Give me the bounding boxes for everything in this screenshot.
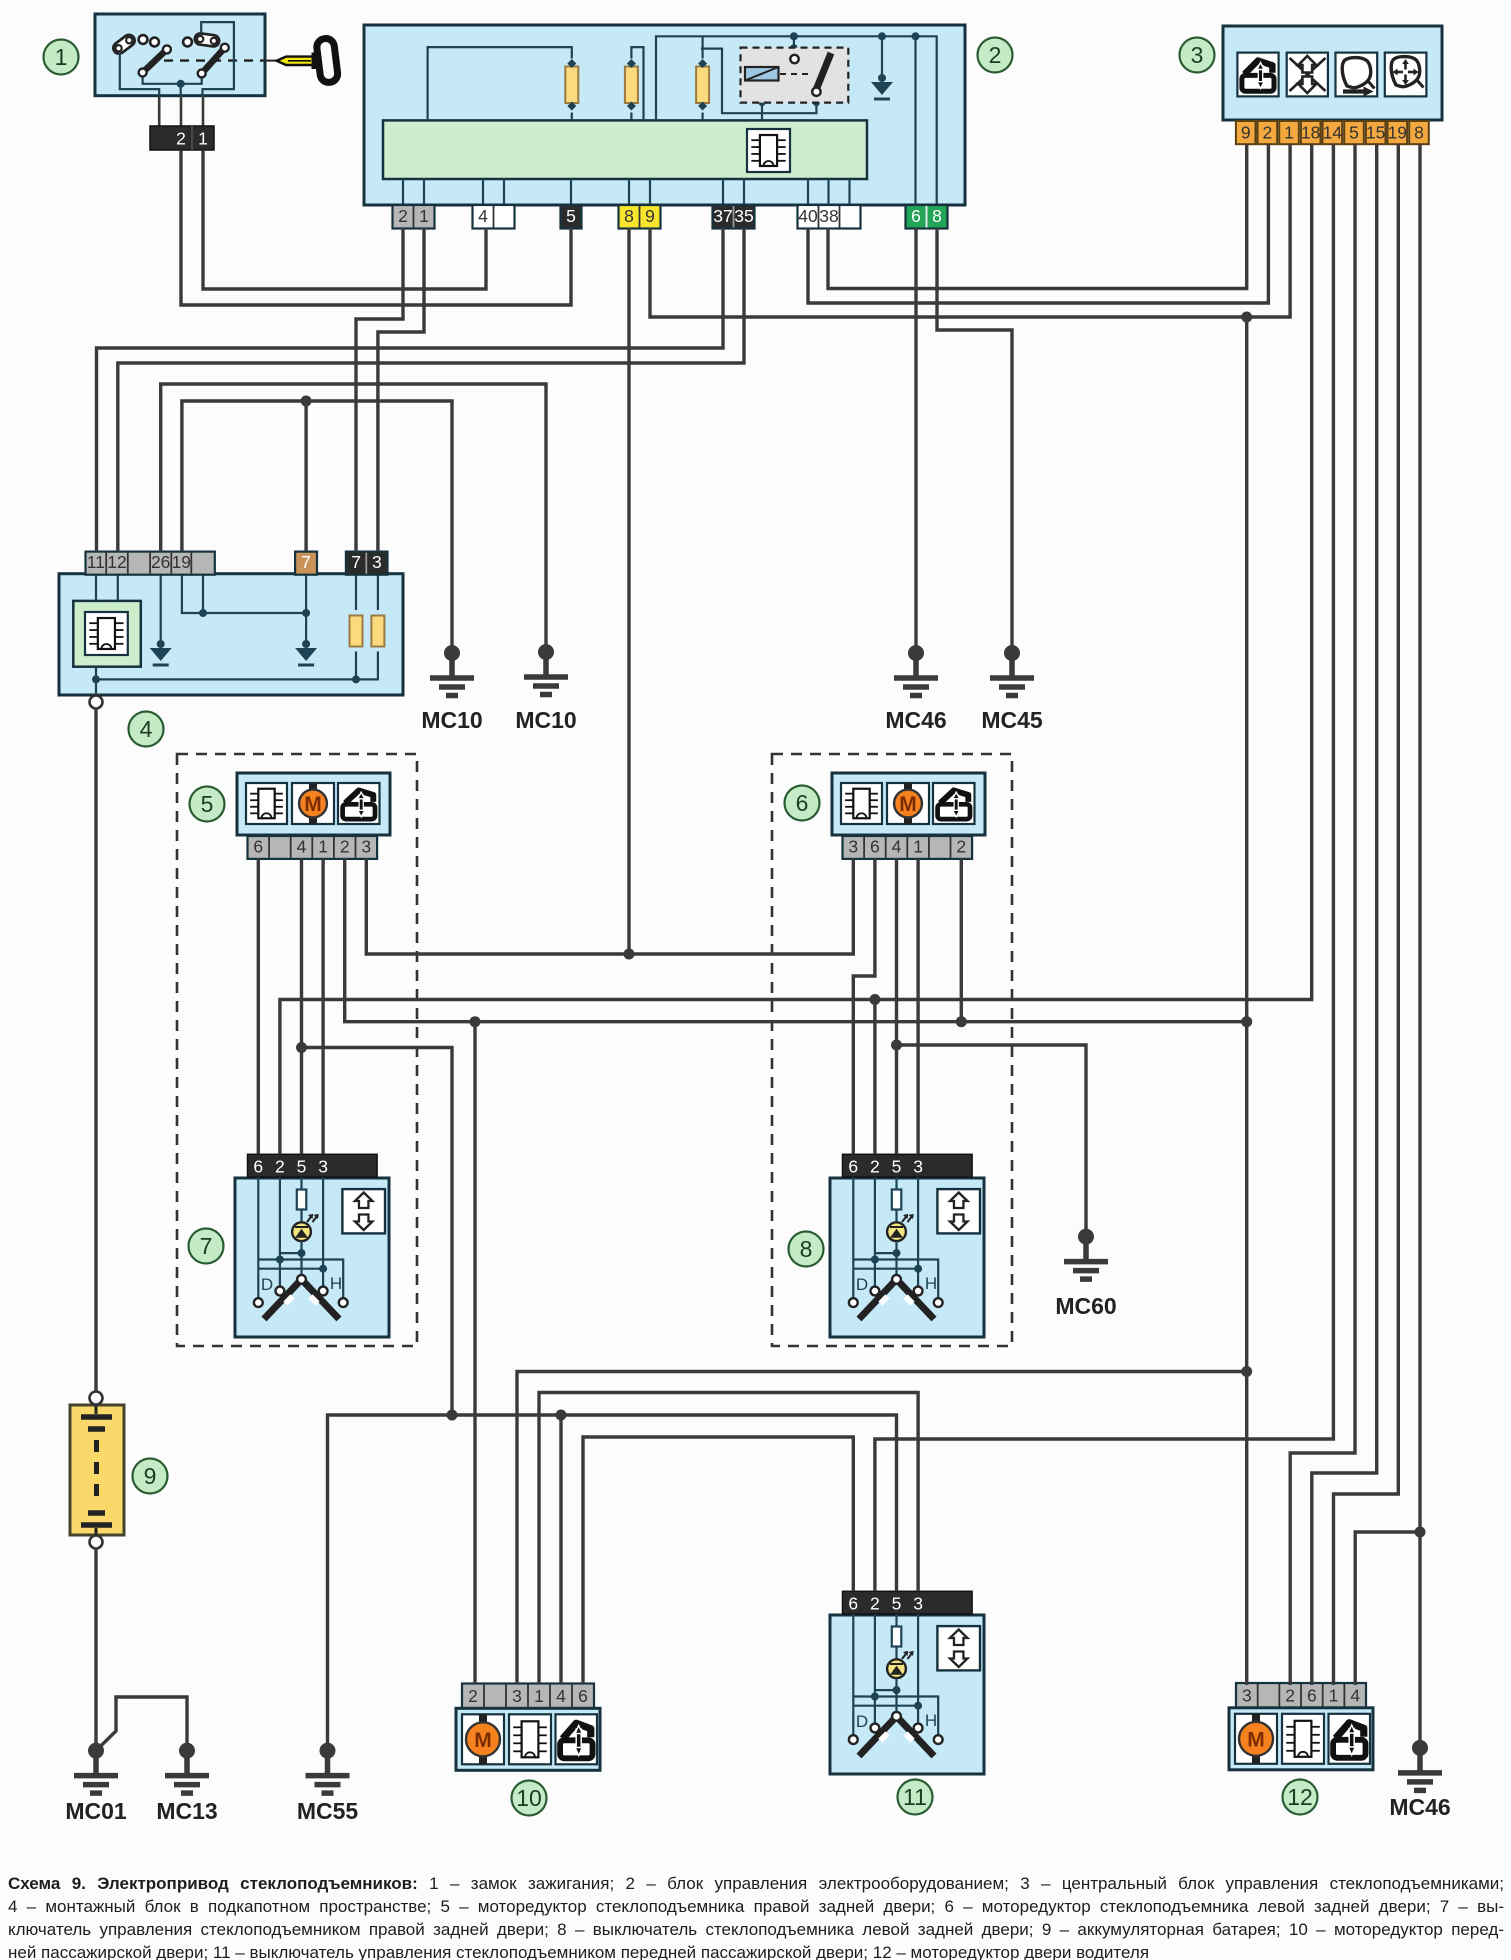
ground MC10 right	[515, 644, 576, 733]
ground MC55	[297, 1743, 359, 1824]
wire switch8 pin5 branch to ground MC60	[897, 1045, 1087, 1237]
label circle 9	[133, 1459, 168, 1494]
wire switch7 pin5 branch to MC55 net	[302, 1048, 453, 1416]
svg-text:4: 4	[556, 1686, 566, 1706]
svg-text:2: 2	[1285, 1685, 1295, 1705]
ignition key	[265, 38, 339, 84]
svg-text:14: 14	[1323, 123, 1343, 143]
svg-text:3: 3	[318, 1156, 328, 1176]
connector pins of block 3 (9 2 1 18 14 5 15 19 8)	[1236, 121, 1429, 144]
ground MC45	[981, 645, 1043, 733]
svg-text:26: 26	[151, 552, 170, 572]
wire motor6 pin 2 down to supply net	[960, 859, 963, 1022]
dashed enclosure of right rear door (5,7)	[177, 754, 417, 1346]
svg-text:18: 18	[1301, 123, 1320, 143]
wire block2 pin 8 down to node W1	[627, 228, 630, 954]
wire block2 pin 2 to block4 pin 7	[356, 228, 403, 552]
svg-text:H: H	[330, 1274, 342, 1293]
ignition switch 1	[95, 14, 265, 126]
node window net / motor6 pin2	[956, 1016, 967, 1027]
wire block3 pin 18 to switch7 pin 2	[280, 144, 1312, 1154]
svg-text:H: H	[925, 1274, 937, 1293]
wire motor5 pin 6 to switch7 pin 6	[257, 859, 260, 1155]
label circle 2	[978, 38, 1013, 73]
svg-text:7: 7	[200, 1233, 213, 1259]
svg-text:2: 2	[275, 1156, 285, 1176]
wire branch to switch8 pin 2	[873, 1000, 876, 1155]
wire block2 pin 6 to ground MC46	[914, 228, 917, 653]
svg-text:12: 12	[107, 552, 126, 572]
svg-text:37: 37	[713, 206, 732, 226]
node block3 pin8 / motor12 pin4	[1415, 1527, 1426, 1538]
label circle 5	[190, 787, 225, 822]
node switch8 pin5 / MC60 branch	[891, 1040, 902, 1051]
svg-text:9: 9	[645, 206, 655, 226]
svg-text:6: 6	[848, 1593, 858, 1613]
wire block3 pin 14 to switch11 pin 2	[875, 144, 1334, 1591]
svg-text:D: D	[261, 1275, 273, 1294]
wire supply bus down to motor 12 pin 3	[1245, 317, 1248, 1685]
wire ignition pin 2 to block2 pin 5	[181, 150, 571, 305]
icon mirror adjust in block 3	[1385, 53, 1427, 97]
connector pins of block 4 (11 12 26 19 / 7 / 7 3)	[86, 552, 388, 575]
svg-text:3: 3	[372, 552, 382, 572]
label circle 7	[189, 1229, 224, 1264]
wire block2 pin 38 to block3 pin 9	[828, 144, 1247, 288]
node MC55 net / switch7 branch	[447, 1410, 458, 1421]
svg-text:19: 19	[1388, 123, 1407, 143]
svg-text:H: H	[925, 1711, 937, 1730]
ground MC13	[156, 1743, 217, 1824]
svg-text:МС10: МС10	[421, 707, 482, 733]
motor-reducer 6 (left rear door) with connector (3 6 4 1 _ 2)	[832, 773, 985, 859]
svg-text:5: 5	[201, 791, 214, 817]
svg-text:8: 8	[800, 1236, 813, 1262]
label circle 12	[1283, 1780, 1318, 1815]
icon mirror fold in block 3	[1336, 53, 1378, 97]
wire block2 pin 8 green to ground MC45	[937, 228, 1012, 653]
svg-text:3: 3	[913, 1593, 923, 1613]
svg-text:4: 4	[297, 836, 307, 856]
window switch 8 (left rear door)	[830, 1154, 984, 1337]
svg-text:6: 6	[848, 1156, 858, 1176]
svg-text:9: 9	[1241, 123, 1251, 143]
svg-text:11: 11	[87, 552, 105, 572]
svg-text:D: D	[856, 1712, 868, 1731]
svg-text:2: 2	[468, 1686, 478, 1706]
svg-text:3: 3	[848, 836, 858, 856]
svg-text:12: 12	[1287, 1784, 1313, 1810]
svg-text:M: M	[474, 1729, 492, 1752]
mounting block 4 body with IC U4	[59, 574, 403, 696]
wire battery negative to ground MC01	[94, 1549, 97, 1751]
fuse F4 in block 4	[350, 616, 363, 647]
svg-text:2: 2	[176, 129, 186, 149]
svg-text:6: 6	[253, 1156, 263, 1176]
node block4 pin19 / pin7 tan	[301, 396, 312, 407]
svg-text:D: D	[856, 1275, 868, 1294]
svg-text:7: 7	[301, 552, 311, 572]
svg-text:19: 19	[172, 552, 191, 572]
svg-text:38: 38	[819, 206, 838, 226]
wire net window supply comp5 pin2 to comp6 pin2	[345, 859, 1247, 1022]
wire motor5 pin 4 to switch7 pin 5	[300, 859, 303, 1155]
wire branch to motor12 pin 4	[1355, 1532, 1420, 1685]
connector pins of block 2 (2 1 / 4 / 5 / 8 9 / 37 35 / 40 38 / 6 8)	[393, 205, 948, 229]
svg-text:1: 1	[913, 836, 923, 856]
wire motor6 pin 1 to switch8 pin 3	[916, 859, 919, 1155]
wire branch to motor10 pin 4	[559, 1415, 562, 1684]
svg-text:15: 15	[1366, 123, 1385, 143]
wire block3 pin 8 to ground MC46 bottom	[1418, 144, 1421, 1748]
svg-text:МС45: МС45	[981, 707, 1043, 733]
svg-text:6: 6	[911, 206, 921, 226]
wire motor10 pin 1 to switch11 pin 3	[539, 1393, 918, 1684]
svg-text:6: 6	[578, 1686, 588, 1706]
central window control block 3 body	[1223, 26, 1442, 120]
wire block4 pin 26 to ground MC10 right	[161, 384, 546, 652]
wire block3 pin 15 to motor12 pin 6	[1312, 144, 1377, 1685]
svg-text:8: 8	[624, 206, 634, 226]
svg-text:1: 1	[1284, 123, 1294, 143]
svg-text:МС55: МС55	[297, 1798, 359, 1824]
label circle 4	[129, 712, 164, 747]
ground MC10 left	[421, 645, 482, 733]
svg-text:35: 35	[734, 206, 753, 226]
wire block4 pin 7 tan stub	[304, 401, 307, 552]
svg-text:1: 1	[198, 129, 208, 149]
wire comp5 pin2 branch to motor10 pin 2	[473, 1022, 476, 1684]
wire block2 pin 35 to block4 pin 12	[118, 228, 744, 552]
wire block4 pin 19 to ground MC10 left	[182, 401, 452, 653]
svg-text:5: 5	[1349, 123, 1359, 143]
relay K1 in block 2	[741, 48, 849, 103]
battery 9	[70, 1392, 124, 1549]
connector X1 of ignition switch (pins 2 1)	[150, 126, 214, 150]
svg-text:4: 4	[1350, 1685, 1360, 1705]
wire block2 pin 37 to block4 pin 11	[97, 228, 724, 552]
svg-text:M: M	[304, 793, 322, 816]
svg-text:2: 2	[340, 836, 350, 856]
svg-text:5: 5	[892, 1156, 902, 1176]
wire block2 pin 9 to block3 pin 1	[650, 144, 1290, 317]
svg-text:5: 5	[297, 1156, 307, 1176]
motor-reducer 10 (front passenger door) with connector (2 _ 3 1 4 6)	[456, 1684, 600, 1771]
label circle 6	[785, 786, 820, 821]
svg-text:2: 2	[870, 1156, 880, 1176]
node MC55 net / motor10 pin4	[556, 1410, 567, 1421]
svg-text:МС10: МС10	[515, 707, 576, 733]
fuse F1 in block 2	[565, 59, 578, 111]
svg-text:4: 4	[140, 716, 153, 742]
label circle 10	[512, 1781, 547, 1816]
svg-text:2: 2	[398, 206, 408, 226]
wire block3 pin 19 to motor12 pin 1	[1334, 144, 1399, 1685]
svg-text:1: 1	[55, 44, 68, 70]
wire motor6 pin 4 to switch8 pin 5	[895, 859, 898, 1155]
svg-text:4: 4	[892, 836, 902, 856]
svg-text:2: 2	[989, 42, 1002, 68]
svg-text:5: 5	[892, 1593, 902, 1613]
wire block3 pin 5 to motor12 pin 2	[1290, 144, 1355, 1685]
svg-text:8: 8	[1414, 123, 1424, 143]
wire motor5 pin 1 to switch7 pin 3	[321, 859, 324, 1155]
motor-reducer 12 (driver door) with connector (3 _ 2 6 1 4)	[1229, 1683, 1373, 1770]
svg-text:8: 8	[932, 206, 942, 226]
svg-text:1: 1	[318, 836, 328, 856]
wire ground switch blade to MC13	[96, 1697, 187, 1751]
icon window lifter in block 3	[1237, 53, 1278, 97]
svg-text:3: 3	[1242, 1685, 1252, 1705]
ground MC01	[65, 1743, 127, 1824]
wire block4 to battery positive	[94, 709, 97, 1392]
wire supply branch to motor10 pin 3	[517, 1372, 1247, 1684]
svg-text:МС13: МС13	[156, 1798, 217, 1824]
window switch 7 (right rear door)	[235, 1154, 389, 1337]
ground MC46	[885, 645, 946, 733]
svg-text:6: 6	[253, 836, 263, 856]
svg-text:M: M	[1247, 1728, 1265, 1751]
icon window up-down in block 3	[1287, 53, 1328, 97]
wire motor10 pin 6 to switch11 pin 6	[583, 1437, 853, 1684]
svg-text:2: 2	[870, 1593, 880, 1613]
motor-reducer 5 (right rear door) with connector (6 _ 4 1 2 3)	[237, 773, 390, 859]
svg-text:2: 2	[1262, 123, 1272, 143]
fuse F3 in block 2	[696, 59, 709, 111]
svg-text:2: 2	[956, 836, 966, 856]
svg-text:1: 1	[419, 206, 429, 226]
svg-text:1: 1	[1329, 1685, 1339, 1705]
node supply bus / motor10 pin3 net	[1241, 1366, 1252, 1377]
svg-text:МС46: МС46	[1389, 1794, 1450, 1820]
svg-text:10: 10	[516, 1785, 542, 1811]
svg-text:3: 3	[913, 1156, 923, 1176]
node switch7 pin5 / MC55 branch	[296, 1042, 307, 1053]
svg-text:6: 6	[796, 790, 809, 816]
svg-text:МС01: МС01	[65, 1798, 127, 1824]
ground MC46 bottom	[1389, 1740, 1450, 1820]
ground MC60	[1055, 1229, 1116, 1319]
svg-text:6: 6	[870, 836, 880, 856]
svg-text:5: 5	[566, 206, 576, 226]
wire ignition pin 1 to block2 pin 4	[203, 150, 486, 289]
svg-text:9: 9	[144, 1463, 157, 1489]
wire block2 pin 40 to block3 pin 2	[808, 144, 1268, 303]
label circle 8	[789, 1232, 824, 1267]
label circle 11	[898, 1780, 933, 1815]
svg-text:1: 1	[534, 1686, 544, 1706]
svg-text:11: 11	[903, 1784, 927, 1810]
svg-text:7: 7	[351, 552, 361, 572]
window switch 11 (front passenger door)	[830, 1591, 984, 1774]
control block 2 body with PCB strip and IC U2	[364, 25, 965, 205]
node supply bus / window net	[1241, 1016, 1252, 1027]
svg-text:4: 4	[478, 206, 488, 226]
svg-text:3: 3	[512, 1686, 522, 1706]
node block2 pin9 / supply bus	[1241, 312, 1252, 323]
fuse F5 in block 4	[371, 616, 384, 647]
node switch8 pin2 branch	[869, 994, 880, 1005]
wire ground net MC55 to switch11 pin 5	[328, 1415, 897, 1751]
svg-text:6: 6	[1307, 1685, 1317, 1705]
svg-text:3: 3	[361, 836, 371, 856]
label circle 3	[1180, 38, 1215, 73]
svg-text:3: 3	[1191, 42, 1204, 68]
svg-text:M: M	[899, 793, 917, 816]
wire block2 pin 1 to block4 pin 3	[378, 228, 424, 552]
terminal circle of block 4 battery output	[90, 696, 103, 709]
fuse F2 in block 2	[625, 59, 638, 111]
node window net / motor10 pin2 branch	[470, 1016, 481, 1027]
svg-text:МС46: МС46	[885, 707, 946, 733]
wire node W1 comp5 pin3 to comp6 pin3	[366, 859, 853, 955]
wire motor6 pin 6 to switch8 pin 6	[853, 859, 875, 1155]
svg-text:МС60: МС60	[1055, 1293, 1116, 1319]
dashed enclosure of left rear door (6,8)	[772, 754, 1012, 1346]
node W1 fuse feed	[624, 949, 635, 960]
label circle 1	[44, 40, 79, 75]
svg-text:40: 40	[798, 206, 818, 226]
